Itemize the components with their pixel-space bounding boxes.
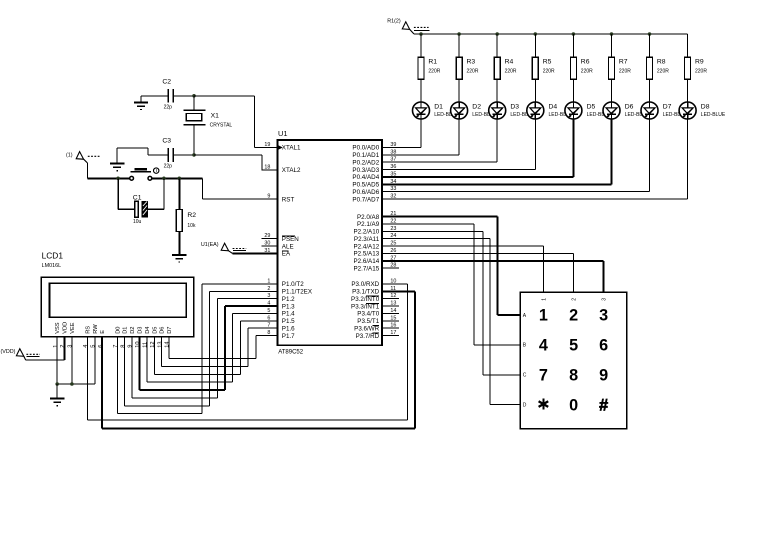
- svg-text:LED-BLUE: LED-BLUE: [701, 112, 726, 118]
- wire LCD RW to ground bus: [94, 337, 96, 384]
- LCD pin label D0 / pin number 7: [113, 327, 121, 348]
- svg-text:D4: D4: [145, 327, 151, 334]
- U1 pin 35 P0.4/AD4: [352, 172, 398, 182]
- svg-text:1: 1: [53, 345, 59, 348]
- U1 pin 1 P1.0/T2: [262, 279, 305, 289]
- svg-text:35: 35: [390, 172, 396, 178]
- wire LED D1 to U1 pin 39: [382, 119, 421, 148]
- svg-text:P0.5/AD5: P0.5/AD5: [352, 182, 379, 189]
- svg-text:14: 14: [165, 341, 171, 347]
- svg-text:C2: C2: [162, 78, 171, 85]
- svg-text:220R: 220R: [695, 69, 707, 75]
- svg-text:14: 14: [390, 308, 396, 314]
- svg-text:P2.7/A15: P2.7/A15: [353, 265, 379, 272]
- ground for C2: [134, 102, 148, 109]
- svg-text:220R: 220R: [619, 69, 631, 75]
- svg-text:D: D: [523, 403, 527, 409]
- LCD pin label D7 / pin number 14: [165, 327, 173, 348]
- resistor R4 220R: [494, 57, 517, 79]
- wire LCD D7 to U1 P1.7 pin 8: [169, 336, 278, 359]
- U1 pin 38 P0.1/AD1: [352, 149, 398, 159]
- svg-text:P3.2/INT0: P3.2/INT0: [351, 296, 380, 303]
- LED D4 LED-BLUE: [527, 102, 574, 119]
- svg-text:3: 3: [68, 345, 74, 348]
- wire rail to resistor R1: [420, 34, 422, 57]
- wire C2 left to ground: [141, 96, 169, 103]
- svg-text:R4: R4: [505, 59, 514, 66]
- svg-text:37: 37: [390, 157, 396, 163]
- wire rail to resistor R8: [649, 34, 651, 57]
- svg-text:P1.0/T2: P1.0/T2: [282, 281, 304, 288]
- U1 pin 25 P2.4/A12: [353, 241, 398, 251]
- svg-text:D3: D3: [138, 327, 144, 334]
- wire rail to resistor R5: [534, 34, 536, 57]
- svg-text:12: 12: [150, 341, 156, 347]
- U1 pin 16 P3.6/WR: [354, 323, 399, 333]
- svg-text:VSS: VSS: [55, 322, 61, 334]
- junction node C1 right: [162, 177, 166, 181]
- svg-text:R8: R8: [657, 59, 666, 66]
- svg-text:220R: 220R: [657, 69, 669, 75]
- svg-text:38: 38: [390, 149, 396, 155]
- U1 pin 31 EA: [262, 248, 291, 258]
- svg-text:D2: D2: [472, 103, 481, 110]
- wire LCD RS to U1 P3.0/RXD pin 10: [88, 284, 408, 420]
- LED D3 LED-BLUE: [489, 102, 536, 119]
- wire LCD D2 to U1 P1.2 pin 3: [132, 299, 278, 398]
- svg-text:5: 5: [91, 345, 97, 348]
- U1 pin 24 P2.3/A11: [354, 233, 399, 243]
- svg-text:R9: R9: [695, 59, 704, 66]
- wire U1 P2.4 pin 25 to keypad column 1: [382, 246, 543, 292]
- svg-text:30: 30: [264, 241, 270, 247]
- U1 pin 3 P1.2: [262, 293, 295, 303]
- svg-text:P0.2/AD2: P0.2/AD2: [352, 159, 379, 166]
- wire LCD VEE to ground bus: [71, 337, 73, 384]
- svg-text:D3: D3: [510, 103, 519, 110]
- U1 pin 14 P3.4/T0: [357, 308, 398, 318]
- U1 pin 21 P2.0/A8: [357, 211, 399, 221]
- U1 pin 39 P0.0/AD0: [352, 142, 398, 152]
- svg-text:P3.3/INT1: P3.3/INT1: [351, 303, 380, 310]
- svg-text:12: 12: [390, 293, 396, 299]
- U1 pin 32 P0.7/AD7: [352, 194, 398, 204]
- wire LCD E to U1 P3.1/TXD pin 11: [102, 291, 415, 428]
- keypad body: [520, 292, 626, 429]
- svg-text:220R: 220R: [505, 69, 517, 75]
- wire LED D4 to U1 pin 36: [382, 119, 535, 170]
- LED D6 LED-BLUE: [603, 102, 650, 119]
- svg-text:D1: D1: [434, 103, 443, 110]
- resistor R6 220R: [570, 57, 593, 79]
- svg-text:XTAL1: XTAL1: [282, 145, 301, 152]
- svg-text:P2.5/A13: P2.5/A13: [353, 251, 379, 258]
- U1 pin 22 P2.1/A9: [357, 219, 399, 229]
- LED D1 LED-BLUE: [413, 102, 460, 119]
- svg-text:E: E: [100, 330, 106, 334]
- svg-text:(VDD): (VDD): [1, 349, 16, 355]
- LCD pin label D6 / pin number 13: [157, 327, 165, 348]
- svg-text:P3.5/T1: P3.5/T1: [357, 318, 379, 325]
- wire LED D7 to U1 pin 33: [382, 119, 649, 192]
- wire button to RST net: [152, 177, 203, 179]
- push button (reset): [130, 168, 159, 180]
- wire LCD D5 to U1 P1.5 pin 6: [154, 321, 277, 374]
- LCD pin label D1 / pin number 8: [120, 327, 128, 348]
- svg-text:220R: 220R: [581, 69, 593, 75]
- resistor R1 220R: [418, 57, 441, 79]
- wire LED D3 to U1 pin 37: [382, 119, 497, 162]
- svg-text:U1(EA): U1(EA): [201, 242, 219, 248]
- resistor R2 10k: [176, 178, 196, 255]
- capacitor C2 22p: [162, 78, 173, 110]
- svg-text:P2.0/A8: P2.0/A8: [357, 214, 380, 221]
- svg-text:P2.1/A9: P2.1/A9: [357, 221, 380, 228]
- junction node XTAL2: [192, 153, 196, 157]
- svg-text:4: 4: [539, 337, 548, 355]
- svg-text:1: 1: [539, 307, 548, 325]
- svg-text:220R: 220R: [467, 69, 479, 75]
- LCD pin label D4 / pin number 11: [143, 327, 151, 348]
- LCD pin label RS / pin number 4: [83, 326, 91, 348]
- wire resistor to LED D8: [687, 79, 689, 102]
- U1 pin 30 ALE: [262, 241, 294, 251]
- capacitor C3 22p: [162, 138, 173, 170]
- wire C3 right to XTAL2 node: [173, 154, 194, 156]
- svg-text:D5: D5: [587, 103, 596, 110]
- wire rail to resistor R3: [458, 34, 460, 57]
- svg-text:5: 5: [569, 337, 578, 355]
- resistor R5 220R: [532, 57, 555, 79]
- junction node VSS: [55, 382, 59, 386]
- svg-text:C: C: [523, 373, 527, 379]
- svg-text:PSEN: PSEN: [282, 236, 299, 243]
- resistor R7 220R: [609, 57, 632, 79]
- svg-text:32: 32: [390, 194, 396, 200]
- svg-text:P3.4/T0: P3.4/T0: [357, 311, 379, 318]
- svg-text:6: 6: [599, 337, 608, 355]
- svg-text:X1: X1: [211, 112, 220, 119]
- svg-text:P2.2/A10: P2.2/A10: [353, 229, 379, 236]
- junction on rail at branch 2: [457, 32, 461, 36]
- LCD pin label VSS / pin number 1: [53, 322, 61, 348]
- LCD pin label VDD / pin number 2: [60, 322, 68, 348]
- wire rail to resistor R4: [496, 34, 498, 57]
- power terminal (1): [66, 152, 101, 163]
- svg-text:P1.2: P1.2: [282, 296, 295, 303]
- wire LCD D3 to U1 P1.3 pin 4: [140, 306, 278, 390]
- svg-text:11: 11: [143, 342, 149, 348]
- svg-text:R5: R5: [543, 59, 552, 66]
- wire EA to U1 pin 31: [233, 252, 278, 254]
- power terminal (VDD): [1, 349, 41, 361]
- wire C3 left to ground: [117, 148, 168, 163]
- junction on rail at branch 3: [495, 32, 499, 36]
- svg-text:P1.3: P1.3: [282, 303, 295, 310]
- junction on rail at branch 6: [610, 32, 614, 36]
- svg-text:0: 0: [569, 396, 578, 414]
- wire LCD VSS to ground bus: [56, 337, 58, 384]
- U1 pin 10 P3.0/RXD: [351, 279, 398, 289]
- LCD pin label D2 / pin number 9: [128, 327, 136, 348]
- svg-text:9: 9: [599, 367, 608, 385]
- svg-text:LCD1: LCD1: [42, 250, 64, 260]
- svg-text:13: 13: [390, 301, 396, 307]
- svg-text:P3.1/TXD: P3.1/TXD: [352, 289, 380, 296]
- IC U1 AT89C52 body: [278, 129, 383, 355]
- U1 pin 19 XTAL1: [262, 142, 301, 152]
- junction node R2 top: [178, 177, 182, 181]
- wire VDD power to LCD pin 2: [26, 337, 65, 360]
- U1 pin 6 P1.5: [262, 315, 295, 325]
- svg-text:7: 7: [539, 367, 548, 385]
- svg-text:P2.6/A14: P2.6/A14: [353, 258, 379, 265]
- svg-text:R6: R6: [581, 59, 590, 66]
- junction node VEE: [70, 382, 74, 386]
- svg-text:R1(2): R1(2): [387, 19, 401, 25]
- svg-text:P1.4: P1.4: [282, 311, 295, 318]
- svg-text:P3.0/RXD: P3.0/RXD: [351, 281, 379, 288]
- U1 pin 36 P0.3/AD3: [352, 164, 398, 174]
- svg-text:9: 9: [128, 345, 134, 348]
- wire resistor to LED D4: [534, 79, 536, 102]
- svg-text:D6: D6: [625, 103, 634, 110]
- svg-text:D0: D0: [115, 327, 121, 334]
- wire resistor to LED D1: [420, 79, 422, 102]
- wire LED D6 to U1 pin 34: [382, 119, 611, 184]
- svg-text:P0.3/AD3: P0.3/AD3: [352, 167, 379, 174]
- U1 pin 12 P3.2/INT0: [351, 293, 399, 303]
- svg-text:16: 16: [390, 323, 396, 329]
- U1 pin 4 P1.3: [262, 301, 295, 311]
- wire U1 P2.2 pin 23 to keypad row C: [382, 231, 520, 374]
- svg-text:220R: 220R: [543, 69, 555, 75]
- U1 pin 37 P0.2/AD2: [352, 157, 398, 167]
- LCD pin label VEE / pin number 3: [68, 322, 76, 348]
- svg-text:P3.6/WR: P3.6/WR: [354, 325, 379, 332]
- svg-text:8: 8: [120, 345, 126, 348]
- LCD pin label D5 / pin number 12: [150, 327, 158, 348]
- U1 pin 8 P1.7: [262, 330, 295, 340]
- LED D8 LED-BLUE: [679, 102, 726, 119]
- svg-text:3: 3: [599, 307, 608, 325]
- ground for C3: [110, 163, 124, 170]
- LCD LCD1 LM016L body: [41, 250, 194, 337]
- ground bus under LCD: [57, 383, 95, 385]
- svg-text:R1: R1: [428, 59, 437, 66]
- svg-text:EA: EA: [282, 251, 291, 258]
- wire U1 P2.6 pin 27 to keypad column 3: [382, 261, 603, 292]
- svg-text:R3: R3: [467, 59, 476, 66]
- wire resistor to LED D5: [572, 79, 574, 102]
- wire resistor to LED D6: [611, 79, 613, 102]
- svg-text:P1.5: P1.5: [282, 318, 295, 325]
- power terminal R1(2): [387, 19, 429, 34]
- svg-text:R7: R7: [619, 59, 628, 66]
- U1 pin 2 P1.1/T2EX: [262, 286, 313, 296]
- junction on rail at branch 5: [572, 32, 576, 36]
- svg-text:10k: 10k: [187, 223, 196, 229]
- svg-text:RST: RST: [282, 196, 295, 203]
- wire rail to resistor R7: [611, 34, 613, 57]
- U1 pin 33 P0.6/AD6: [352, 186, 398, 196]
- junction on rail at branch 4: [534, 32, 538, 36]
- svg-text:P0.7/AD7: P0.7/AD7: [352, 196, 379, 203]
- wire LCD D4 to U1 P1.4 pin 5: [147, 314, 278, 383]
- svg-text:1: 1: [541, 298, 547, 301]
- svg-text:8: 8: [569, 367, 578, 385]
- wire to U1 RST pin 9: [203, 178, 278, 199]
- svg-text:CRYSTAL: CRYSTAL: [210, 123, 233, 129]
- svg-text:P1.7: P1.7: [282, 333, 295, 340]
- LED D2 LED-BLUE: [451, 102, 498, 119]
- wire U1 P2.3 pin 24 to keypad row D: [382, 239, 520, 405]
- svg-text:D4: D4: [549, 103, 558, 110]
- wire LCD D1 to U1 P1.1 pin 2: [125, 291, 278, 405]
- U1 pin 5 P1.4: [262, 308, 295, 318]
- svg-text:#: #: [599, 396, 608, 414]
- svg-text:D8: D8: [701, 103, 710, 110]
- svg-text:22p: 22p: [164, 105, 173, 111]
- svg-text:RS: RS: [86, 326, 92, 334]
- svg-text:3: 3: [602, 298, 608, 301]
- wire C2 right to XTAL1 node: [173, 95, 194, 97]
- svg-text:VDD: VDD: [63, 322, 69, 334]
- LED D7 LED-BLUE: [641, 102, 688, 119]
- svg-text:P0.4/AD4: P0.4/AD4: [352, 174, 379, 181]
- U1 pin 9 RST: [262, 194, 295, 204]
- wire LCD D0 to U1 P1.0 pin 1: [117, 284, 277, 414]
- U1 pin 18 XTAL2: [262, 165, 301, 175]
- ground for R2: [172, 255, 186, 262]
- crystal X1: [184, 96, 233, 155]
- wire rail to resistor R9: [687, 34, 689, 57]
- svg-text:7: 7: [113, 345, 119, 348]
- wire LED D2 to U1 pin 38: [382, 119, 459, 155]
- wire node to U1 XTAL2 pin 18: [194, 155, 278, 170]
- wire resistor to LED D3: [496, 79, 498, 102]
- svg-text:D5: D5: [152, 327, 158, 334]
- junction on rail at branch 7: [648, 32, 652, 36]
- svg-text:28: 28: [390, 263, 396, 269]
- svg-text:29: 29: [264, 233, 270, 239]
- svg-text:P1.6: P1.6: [282, 325, 295, 332]
- wire U1 P2.0 pin 21 to keypad row A: [382, 217, 520, 315]
- svg-text:2: 2: [572, 298, 578, 301]
- U1 pin 23 P2.2/A10: [353, 226, 398, 236]
- LCD pin label E / pin number 6: [98, 330, 106, 348]
- wire LED D5 to U1 pin 35: [382, 119, 573, 177]
- svg-text:P3.7/RD: P3.7/RD: [356, 333, 380, 340]
- svg-text:U1: U1: [278, 129, 287, 138]
- svg-text:RW: RW: [93, 324, 99, 334]
- junction on rail at branch 1: [419, 32, 423, 36]
- wire LCD D6 to U1 P1.6 pin 7: [162, 328, 278, 366]
- VCC rail wire: [414, 33, 688, 35]
- svg-text:22p: 22p: [164, 164, 173, 170]
- svg-text:P1.1/T2EX: P1.1/T2EX: [282, 289, 313, 296]
- U1 pin 13 P3.3/INT1: [351, 301, 399, 311]
- svg-text:2: 2: [569, 307, 578, 325]
- U1 pin 7 P1.6: [262, 323, 295, 333]
- svg-text:33: 33: [390, 186, 396, 192]
- svg-text:C3: C3: [162, 138, 171, 145]
- svg-text:(1): (1): [66, 153, 73, 159]
- svg-text:D7: D7: [167, 327, 173, 334]
- junction node XTAL1: [192, 94, 196, 98]
- keypad key *: [539, 399, 549, 410]
- svg-text:VEE: VEE: [70, 322, 76, 334]
- svg-text:ALE: ALE: [282, 243, 294, 250]
- svg-text:4: 4: [83, 345, 89, 348]
- U1 pin 28 P2.7/A15: [353, 263, 398, 273]
- resistor R9 220R: [685, 57, 708, 79]
- wire rail to resistor R6: [572, 34, 574, 57]
- U1 pin 26 P2.5/A13: [353, 248, 398, 258]
- svg-text:LM016L: LM016L: [42, 263, 61, 269]
- svg-text:P0.6/AD6: P0.6/AD6: [352, 189, 379, 196]
- svg-text:15: 15: [390, 315, 396, 321]
- svg-text:P2.3/A11: P2.3/A11: [354, 236, 380, 243]
- svg-text:36: 36: [390, 164, 396, 170]
- wire resistor to LED D7: [649, 79, 651, 102]
- svg-text:P0.1/AD1: P0.1/AD1: [352, 152, 379, 159]
- svg-text:D7: D7: [663, 103, 672, 110]
- U1 pin 29 PSEN: [262, 233, 299, 243]
- wire bus to ground: [56, 384, 58, 398]
- U1 pin 15 P3.5/T1: [357, 315, 398, 325]
- U1 pin 34 P0.5/AD5: [352, 179, 398, 189]
- svg-text:XTAL2: XTAL2: [282, 167, 301, 174]
- svg-text:R2: R2: [187, 212, 196, 219]
- wire U1 P2.5 pin 26 to keypad column 2: [382, 253, 573, 292]
- LCD pin label RW / pin number 5: [91, 324, 99, 348]
- U1 pin 27 P2.6/A14: [353, 255, 398, 265]
- wire LED D8 to U1 pin 32: [382, 119, 687, 199]
- junction node C1 left: [116, 177, 120, 181]
- svg-text:P2.4/A12: P2.4/A12: [353, 243, 379, 250]
- wire resistor to LED D2: [458, 79, 460, 102]
- svg-text:D6: D6: [160, 327, 166, 334]
- svg-text:P0.0/AD0: P0.0/AD0: [352, 145, 379, 152]
- LCD pin label D3 / pin number 10: [135, 327, 143, 348]
- svg-text:34: 34: [390, 179, 396, 185]
- ground for LCD: [50, 398, 64, 405]
- svg-text:17: 17: [390, 330, 396, 336]
- svg-text:D1: D1: [123, 327, 129, 334]
- svg-text:AT89C52: AT89C52: [278, 349, 304, 355]
- svg-text:D2: D2: [130, 327, 136, 334]
- svg-text:13: 13: [157, 341, 163, 347]
- wire node to U1 XTAL1 pin 19: [194, 96, 278, 148]
- capacitor C1 10u (electrolytic): [118, 178, 164, 225]
- LED D5 LED-BLUE: [565, 102, 612, 119]
- svg-text:10u: 10u: [133, 219, 142, 225]
- wire terminal (1) to reset button: [88, 163, 130, 178]
- resistor R8 220R: [647, 57, 670, 79]
- resistor R3 220R: [456, 57, 479, 79]
- U1 pin 17 P3.7/RD: [356, 330, 399, 340]
- U1 pin 11 P3.1/TXD: [352, 286, 399, 296]
- power terminal U1(EA): [201, 242, 246, 254]
- svg-text:220R: 220R: [428, 69, 440, 75]
- wire U1 P2.1 pin 22 to keypad row B: [382, 224, 520, 345]
- svg-text:39: 39: [390, 142, 396, 148]
